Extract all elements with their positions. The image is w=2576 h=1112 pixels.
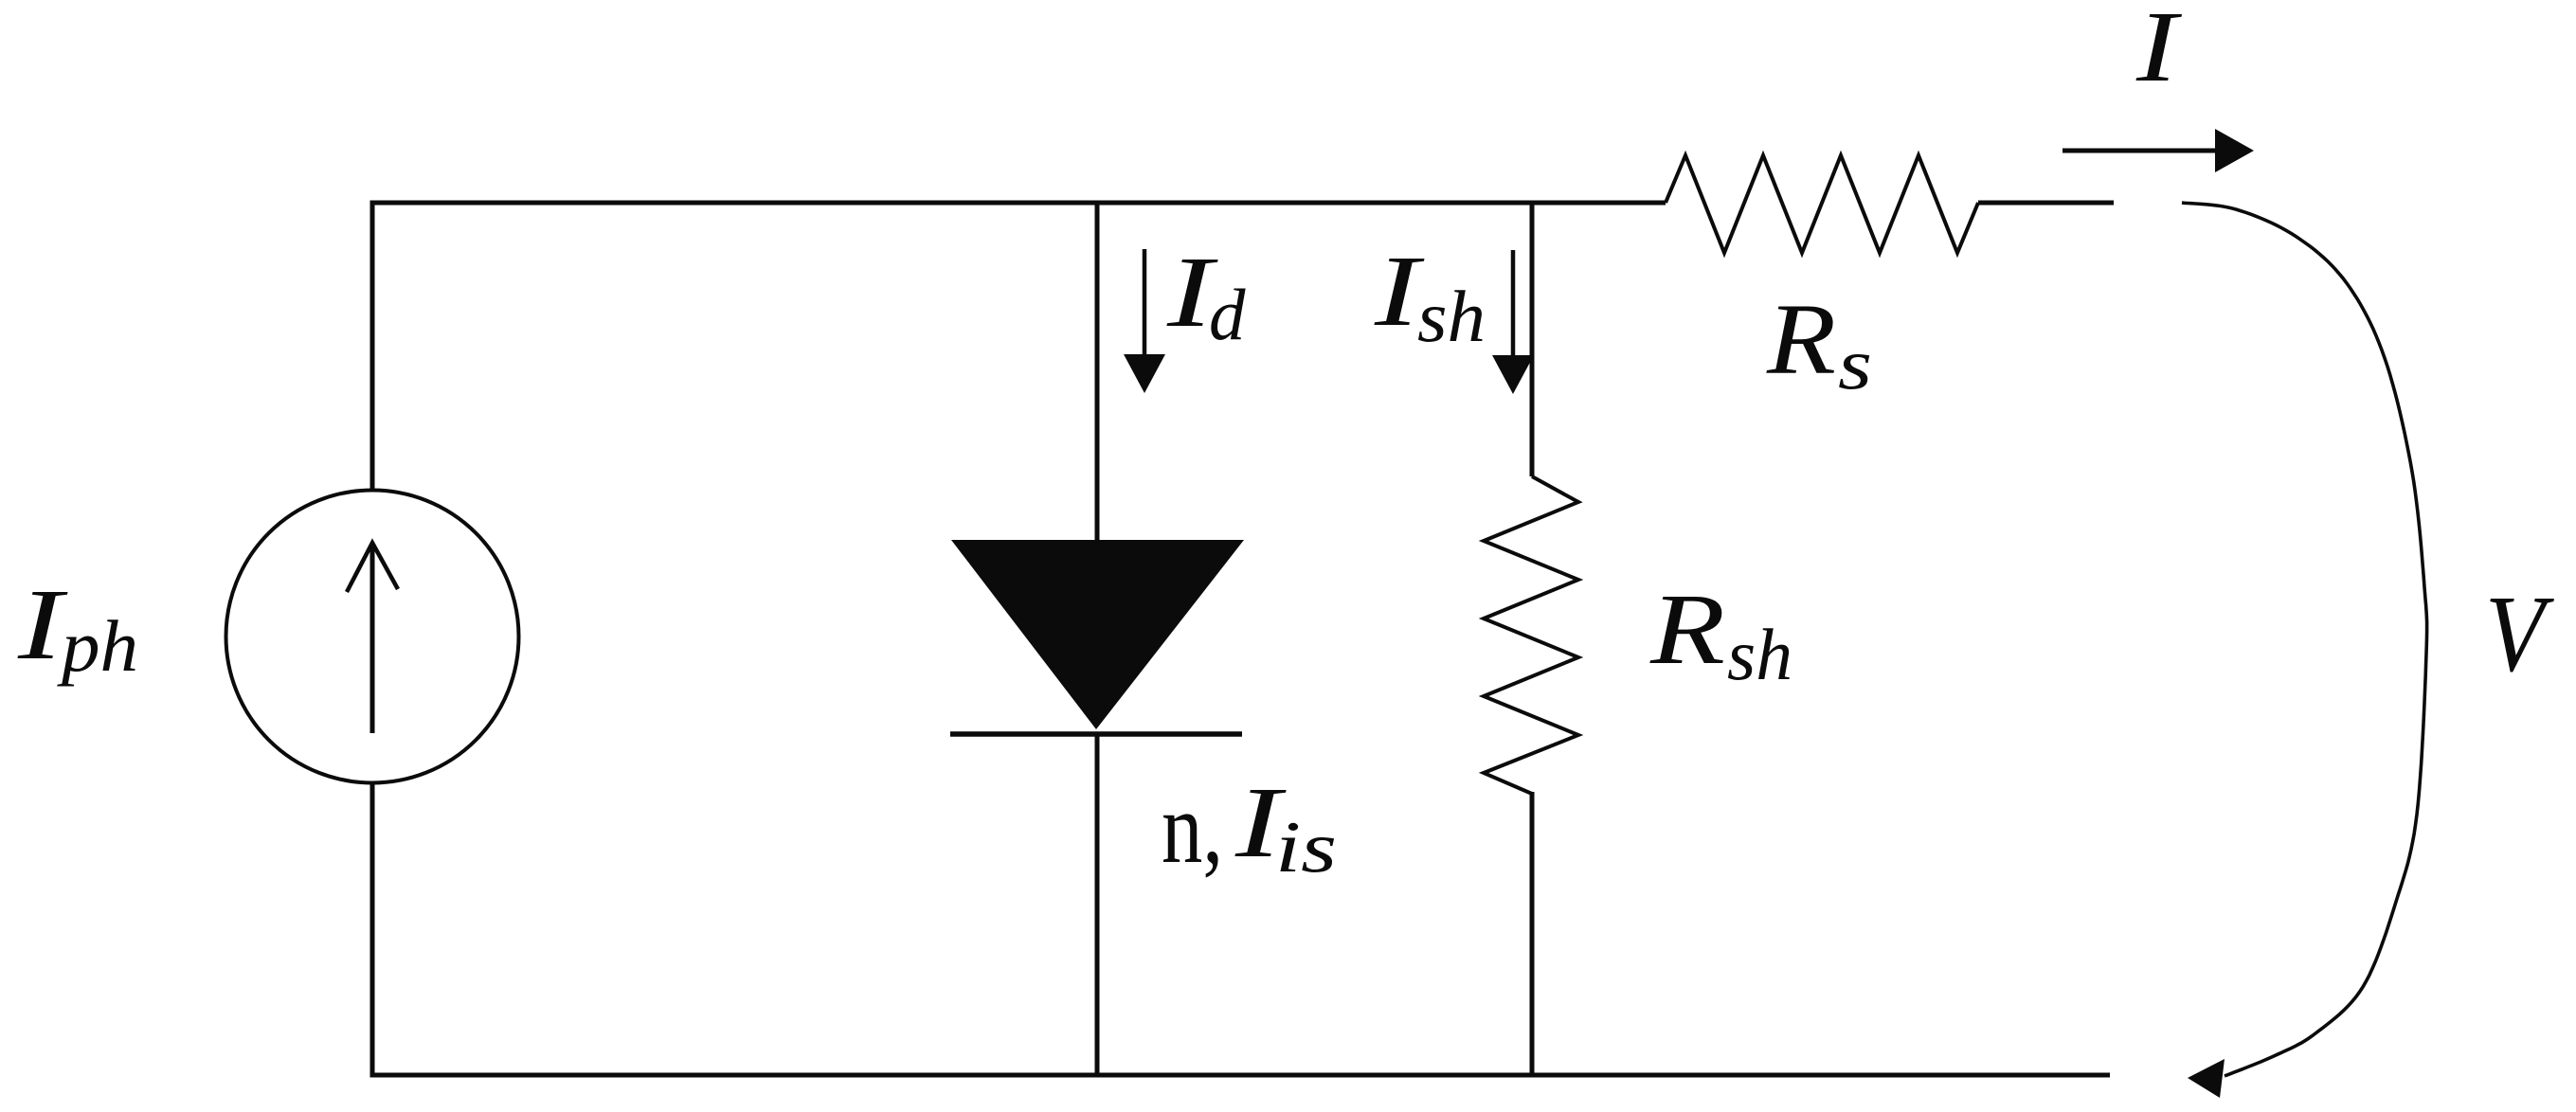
svg-text:sh: sh bbox=[1727, 614, 1792, 695]
resistor Rsh vertical zigzag bbox=[1484, 476, 1578, 794]
svg-text:d: d bbox=[1209, 274, 1246, 355]
current Id arrow shaft bbox=[1143, 249, 1147, 360]
wire diode branch upper bbox=[1095, 201, 1100, 543]
wire shunt branch lower bbox=[1530, 792, 1535, 1078]
wire top horizontal (top bus from source to Rs) bbox=[370, 201, 1666, 206]
svg-text:I: I bbox=[2135, 0, 2182, 103]
svg-text:s: s bbox=[1838, 323, 1872, 404]
wire shunt branch upper bbox=[1530, 201, 1535, 477]
current I arrow head bbox=[2215, 129, 2254, 172]
current Ish arrow shaft bbox=[1511, 250, 1516, 361]
current source arrow shaft bbox=[370, 545, 375, 733]
current source arrow chevron head bbox=[347, 543, 398, 592]
wire top right segment after Rs bbox=[1978, 201, 2114, 206]
wire left vertical lower (current source to bottom bus) bbox=[370, 781, 375, 1078]
current Ish arrow head bbox=[1492, 355, 1534, 394]
svg-text:R: R bbox=[1766, 284, 1836, 396]
wire diode branch lower bbox=[1095, 734, 1100, 1078]
diode D1 cathode bar bbox=[950, 731, 1242, 737]
svg-text:n,: n, bbox=[1162, 773, 1223, 885]
voltage V measurement arc bbox=[2182, 203, 2427, 1076]
svg-text:sh: sh bbox=[1417, 276, 1486, 357]
svg-text:I: I bbox=[17, 569, 68, 681]
diode D1 triangle (anode) bbox=[951, 540, 1244, 729]
current I arrow shaft (output current) bbox=[2063, 149, 2219, 153]
wire left vertical upper (top bus to current source) bbox=[370, 201, 375, 493]
svg-text:ph: ph bbox=[57, 605, 138, 687]
svg-text:R: R bbox=[1649, 574, 1725, 686]
svg-text:V: V bbox=[2485, 574, 2555, 695]
voltage V arc arrow head bbox=[2188, 1059, 2225, 1098]
resistor Rs horizontal zigzag bbox=[1666, 155, 1978, 253]
current source Iph circle bbox=[226, 491, 519, 783]
current Id arrow head bbox=[1124, 354, 1165, 393]
wire bottom horizontal (bottom bus) bbox=[370, 1073, 2111, 1078]
svg-text:is: is bbox=[1275, 806, 1337, 888]
